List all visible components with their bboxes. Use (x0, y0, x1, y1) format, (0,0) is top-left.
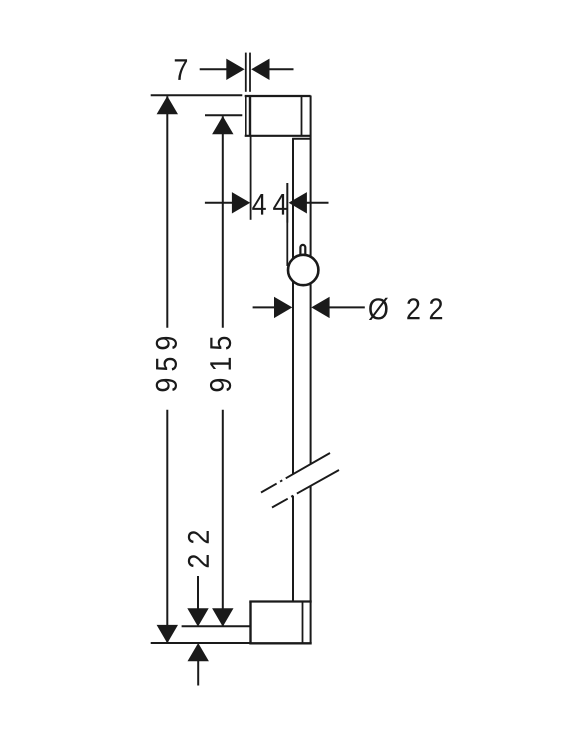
break lines (261, 453, 339, 508)
dimension 7 (175, 53, 294, 92)
dimension diameter 22 (253, 297, 443, 320)
dimension 44 (205, 136, 329, 223)
extension line at bar axis for 44 (286, 183, 288, 266)
dimension 959 (151, 95, 243, 643)
dimension 915 (205, 115, 242, 626)
top bracket (245, 96, 311, 139)
slider knob (288, 255, 318, 285)
bottom bracket (249, 602, 311, 644)
slider hook (300, 245, 305, 263)
dimension 22 (bottom offset) (151, 531, 250, 686)
wall bar (293, 96, 311, 644)
